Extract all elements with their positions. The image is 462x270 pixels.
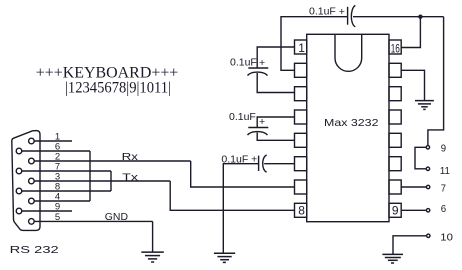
wire pin9 to terminal 6 xyxy=(401,209,426,211)
terminal circle 11 xyxy=(426,167,429,170)
svg-text:+: + xyxy=(259,57,265,69)
svg-text:6: 6 xyxy=(441,203,447,215)
terminal circle 10 xyxy=(427,234,430,237)
wire C3 top to pin4 xyxy=(257,117,294,128)
svg-text:|12345678|9|1011|: |12345678|9|1011| xyxy=(65,80,171,97)
wire pin1 stub xyxy=(34,140,72,142)
wire C4 right to pin6 xyxy=(264,163,294,165)
wire Rx to pin7 xyxy=(191,161,295,187)
wire pin4 xyxy=(34,200,90,202)
capacitor C3 plates xyxy=(248,127,268,129)
wire C3 bottom to pin5 xyxy=(257,133,294,141)
connector pin circle 3 xyxy=(29,178,35,184)
svg-text:8: 8 xyxy=(298,204,305,218)
connector pin circle 5 xyxy=(29,219,35,225)
svg-text:9: 9 xyxy=(55,202,60,213)
svg-text:0.1uF: 0.1uF xyxy=(230,57,257,69)
wire junction to pin16 xyxy=(401,17,420,48)
wire pin3 Tx xyxy=(34,180,170,182)
wire pin5 GND xyxy=(34,220,152,222)
svg-text:0.1uF: 0.1uF xyxy=(309,5,336,17)
capacitor C1 plates xyxy=(347,7,349,25)
junction dot xyxy=(418,15,422,19)
wire right rail to terminal 9 xyxy=(428,17,444,146)
connector pin circle 7 xyxy=(16,168,22,174)
wire C1 left to pin2 xyxy=(281,17,348,71)
ground G4 xyxy=(382,254,403,263)
connector pin circle 8 xyxy=(16,188,22,194)
svg-text:10: 10 xyxy=(440,232,453,244)
connector J1 RS232 shell xyxy=(12,131,40,231)
keyboard title text xyxy=(36,65,179,97)
wire tie 6-4 xyxy=(89,151,91,201)
IC pin number labels xyxy=(298,41,400,218)
wire C1 right xyxy=(353,16,444,18)
svg-text:GND: GND xyxy=(105,211,129,223)
connector pin circle 2 xyxy=(29,158,35,164)
wire C2 bottom to pin3 xyxy=(257,73,294,93)
IC U1 body Max3232 xyxy=(307,34,389,221)
terminal circle 6 xyxy=(426,209,429,212)
svg-text:9: 9 xyxy=(392,204,399,218)
wire GND drop xyxy=(152,221,154,252)
svg-text:5: 5 xyxy=(55,212,60,223)
connector pin circle 6 xyxy=(16,148,22,154)
svg-text:Rx: Rx xyxy=(122,151,139,163)
svg-text:0.1uF: 0.1uF xyxy=(229,111,256,123)
connector pin circle 4 xyxy=(29,198,35,204)
capacitor C2 plates xyxy=(248,67,268,69)
svg-text:16: 16 xyxy=(391,42,400,56)
svg-text:7: 7 xyxy=(441,183,446,195)
svg-text:1: 1 xyxy=(298,41,305,55)
connector pin numbers xyxy=(55,132,60,223)
wire tie 7-8 xyxy=(110,171,112,191)
IC notch xyxy=(335,34,362,71)
svg-text:+: + xyxy=(259,116,265,128)
svg-text:Max 3232: Max 3232 xyxy=(324,117,379,129)
connector pin circle 1 xyxy=(29,138,35,144)
wire terminal 10 to ground xyxy=(393,236,427,254)
ground G3 xyxy=(415,101,434,110)
svg-text:9: 9 xyxy=(441,142,446,154)
wire Tx to pin8 xyxy=(170,181,294,210)
terminal circle 9 xyxy=(426,146,429,149)
wire bracket 9-11 xyxy=(415,147,426,169)
svg-text:11: 11 xyxy=(440,165,450,177)
svg-text:Tx: Tx xyxy=(122,172,139,184)
wire pin15 to ground xyxy=(401,70,424,100)
ground G1 xyxy=(141,252,164,262)
svg-text:RS 232: RS 232 xyxy=(10,244,59,256)
IC pin boxes right 16-9 xyxy=(389,40,401,54)
IC pin boxes left 1-8 xyxy=(295,40,307,54)
wire C2 top to pin1 xyxy=(257,47,294,68)
wire pin6 xyxy=(22,150,90,152)
connector pin circle 9 xyxy=(16,208,22,214)
wire pin9 stub xyxy=(22,210,72,212)
wire pin10 to terminal 7 xyxy=(401,186,426,188)
wire C4 left drop to ground xyxy=(223,164,258,253)
wire pin7 xyxy=(22,170,111,172)
terminal circle 7 xyxy=(426,185,429,188)
wire pin8 xyxy=(22,190,111,192)
wire pin2 Rx xyxy=(34,160,191,162)
ground G2 xyxy=(214,253,235,262)
capacitor C4 plates xyxy=(258,156,260,171)
